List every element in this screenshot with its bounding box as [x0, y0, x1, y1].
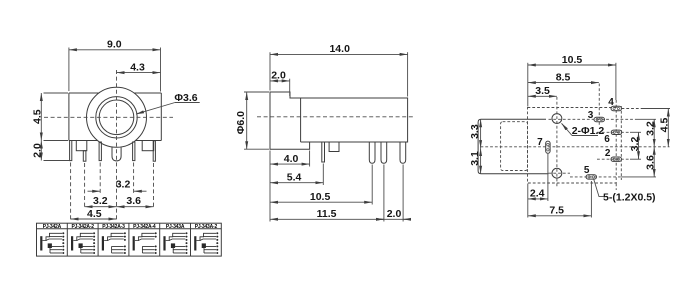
front body outline	[69, 93, 161, 141]
variant schematic cell 4	[134, 232, 157, 254]
side round pin B	[381, 142, 387, 163]
dimension 4.5 left	[31, 93, 68, 141]
pin 5 front	[133, 142, 135, 161]
dimension 2.0 bottom	[376, 165, 411, 222]
svg-text:14.0: 14.0	[329, 43, 350, 55]
svg-text:3.6: 3.6	[126, 195, 141, 207]
dimension 3.6 right	[645, 147, 657, 177]
svg-text:PJ-343A: PJ-343A	[166, 224, 185, 230]
extension lines below pins	[71, 163, 154, 222]
pad row center lines	[481, 109, 671, 177]
dimension 2.0 top	[270, 70, 290, 96]
pin 2 front tail	[83, 151, 86, 162]
variant schematic cell 2	[72, 232, 95, 254]
horizontal center line	[44, 116, 173, 118]
pin 5 pad	[586, 175, 597, 179]
svg-text:5: 5	[584, 165, 590, 176]
dimension 3.2 pin2-center	[85, 195, 117, 207]
side round pin C	[400, 142, 406, 163]
pin 7 pad	[546, 141, 550, 153]
pad column center lines	[557, 84, 621, 191]
svg-text:PJ-342A-3: PJ-342A-3	[102, 224, 125, 230]
svg-text:4.5: 4.5	[87, 208, 102, 220]
svg-text:4.5: 4.5	[659, 118, 671, 133]
svg-text:5.4: 5.4	[287, 171, 302, 183]
barrel outer circle	[87, 87, 147, 147]
svg-text:7.5: 7.5	[549, 205, 564, 217]
pin 6 front tail	[153, 141, 155, 161]
pin 6 pad	[611, 130, 622, 134]
dimension 11.5	[270, 165, 384, 222]
dimension 4.0	[270, 151, 310, 222]
svg-text:PJ-342A-2: PJ-342A-2	[72, 224, 95, 230]
dimension 3.6 center-pin6	[117, 195, 154, 207]
variant schematic cell 5	[165, 232, 188, 254]
dimension 2.0 left	[31, 141, 69, 161]
vertical center line	[116, 70, 118, 221]
dimension 4.5 right	[659, 109, 671, 147]
svg-text:PJ-342A-4: PJ-342A-4	[133, 224, 156, 230]
dimension 4.3	[117, 61, 161, 73]
svg-text:2.0: 2.0	[387, 208, 402, 220]
label phi3.6 leader	[136, 92, 200, 114]
svg-text:2.0: 2.0	[271, 70, 286, 82]
dimension 4.5 bottom	[71, 208, 117, 220]
jack hole circle phi3.6	[99, 100, 134, 135]
svg-text:6: 6	[604, 134, 610, 145]
svg-text:PJ-343A-2: PJ-343A-2	[195, 224, 218, 230]
dimension 10.5	[270, 165, 372, 205]
side thin pin	[322, 142, 325, 162]
dimension 7.5	[528, 181, 592, 218]
svg-text:3.2: 3.2	[116, 179, 131, 191]
svg-text:3.2: 3.2	[629, 137, 641, 152]
svg-text:2.4: 2.4	[530, 188, 545, 200]
dimension 3.2 pins 3-5	[88, 179, 147, 192]
pin 3 pad	[594, 117, 605, 121]
pin 4 center bullet	[112, 147, 121, 161]
pin 2 front wide	[76, 141, 87, 151]
svg-text:4.3: 4.3	[130, 61, 145, 73]
svg-text:3.1: 3.1	[469, 151, 481, 166]
dimension 14.0	[270, 43, 408, 96]
barrel middle ring	[96, 97, 137, 138]
pin 1 front	[70, 141, 72, 161]
dimension 9.0	[69, 39, 161, 92]
dimension 3.3	[469, 119, 481, 148]
dimension 3.2 right upper	[645, 119, 657, 147]
svg-text:10.5: 10.5	[562, 54, 583, 66]
svg-text:2.0: 2.0	[31, 143, 43, 158]
svg-text:2-Φ1.2: 2-Φ1.2	[572, 125, 605, 137]
svg-text:8.5: 8.5	[556, 71, 571, 83]
dimension 3.2 right middle	[629, 132, 641, 159]
pin 2 pad	[611, 157, 622, 161]
variant schematic cell 3	[103, 232, 126, 254]
svg-text:4: 4	[608, 97, 614, 108]
dimension 10.5 top	[528, 54, 616, 107]
dimension 3.1	[469, 148, 481, 174]
svg-text:3.5: 3.5	[535, 85, 550, 97]
mounting hole top	[552, 114, 562, 124]
mounting hole bottom	[552, 168, 562, 178]
table grid	[37, 223, 222, 256]
svg-text:3.2: 3.2	[645, 121, 657, 136]
side center line	[257, 116, 415, 118]
pin 6 front wide	[142, 141, 154, 151]
svg-text:3.6: 3.6	[645, 155, 657, 170]
dimension 8.5	[528, 71, 599, 83]
side body outline	[270, 92, 408, 149]
dimension 5.4	[270, 164, 323, 186]
pin 4 pad	[611, 106, 622, 110]
pin 3 front	[99, 142, 101, 161]
svg-text:Φ6.0: Φ6.0	[235, 111, 247, 134]
internal barrel edge line	[301, 98, 310, 142]
side round pin A	[369, 142, 375, 163]
dimension 3.5	[528, 85, 557, 97]
dimension 2.4	[528, 154, 548, 218]
svg-text:9.0: 9.0	[107, 39, 122, 51]
svg-text:4.5: 4.5	[31, 109, 43, 124]
label 2-phi1.2 leader	[562, 123, 605, 137]
svg-text:3.3: 3.3	[469, 124, 481, 139]
svg-text:10.5: 10.5	[310, 191, 331, 203]
barrel outline	[478, 119, 548, 173]
svg-text:2: 2	[605, 148, 611, 159]
barrel hole hidden	[501, 122, 528, 171]
svg-text:4.0: 4.0	[284, 153, 299, 165]
variant schematic cell 6	[195, 232, 218, 254]
body hidden outline	[528, 108, 617, 184]
svg-text:3.2: 3.2	[93, 195, 108, 207]
variant schematic cell 1	[41, 232, 64, 254]
label 5-(1.2X0.5) leader	[594, 179, 656, 204]
svg-text:Φ3.6: Φ3.6	[174, 92, 197, 104]
svg-text:PJ-342A: PJ-342A	[43, 224, 62, 230]
svg-text:11.5: 11.5	[317, 208, 337, 220]
dimension phi6.0	[235, 92, 269, 149]
svg-text:5-(1.2X0.5): 5-(1.2X0.5)	[603, 192, 656, 204]
table headers	[43, 224, 218, 230]
side stub lug	[329, 142, 339, 152]
